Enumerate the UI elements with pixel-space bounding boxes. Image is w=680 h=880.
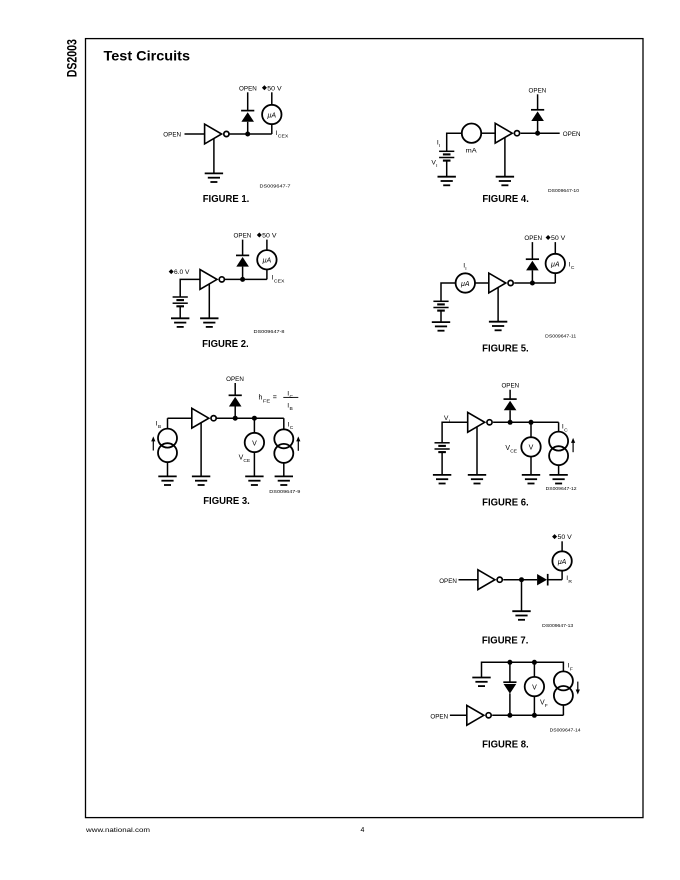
svg-text:DS009647-12: DS009647-12 [546, 486, 577, 492]
svg-text:mA: mA [466, 147, 478, 154]
svg-text:μA: μA [262, 258, 272, 265]
svg-text:FIGURE 2.: FIGURE 2. [202, 339, 249, 350]
svg-text:4: 4 [361, 827, 365, 834]
svg-text:DS009647-14: DS009647-14 [550, 728, 581, 734]
svg-text:C: C [571, 265, 575, 271]
svg-text:C: C [290, 394, 294, 400]
svg-text:h: h [259, 395, 263, 402]
svg-text:DS009647-10: DS009647-10 [548, 188, 579, 194]
svg-text:Test Circuits: Test Circuits [104, 48, 191, 64]
svg-text:CE: CE [510, 449, 518, 455]
svg-text:OPEN: OPEN [439, 578, 457, 585]
svg-text:DS009647-11: DS009647-11 [545, 334, 576, 340]
svg-text:50 V: 50 V [267, 85, 282, 92]
svg-text:50 V: 50 V [558, 534, 573, 541]
svg-text:FIGURE 7.: FIGURE 7. [482, 635, 529, 646]
svg-text:OPEN: OPEN [501, 383, 519, 390]
svg-text:μA: μA [267, 112, 277, 119]
svg-text:CEX: CEX [274, 278, 285, 284]
svg-text:V: V [529, 445, 534, 452]
svg-text:μA: μA [550, 261, 560, 268]
svg-text:FIGURE 1.: FIGURE 1. [203, 194, 250, 205]
svg-text:C: C [564, 427, 568, 433]
svg-text:FIGURE 8.: FIGURE 8. [482, 740, 529, 751]
svg-text:OPEN: OPEN [524, 235, 542, 242]
svg-text:50 V: 50 V [262, 233, 277, 240]
svg-text:CEX: CEX [278, 134, 289, 140]
svg-text:OPEN: OPEN [226, 376, 244, 383]
svg-text:CE: CE [243, 458, 251, 464]
svg-text:B: B [158, 424, 161, 430]
svg-text:OPEN: OPEN [563, 131, 581, 138]
svg-text:F: F [570, 666, 573, 672]
svg-text:DS009647-8: DS009647-8 [254, 329, 285, 335]
svg-text:F: F [545, 703, 548, 709]
svg-text:DS009647-13: DS009647-13 [542, 623, 573, 629]
svg-text:FE: FE [263, 398, 271, 404]
svg-text:FIGURE 3.: FIGURE 3. [203, 496, 250, 507]
svg-text:OPEN: OPEN [239, 85, 257, 92]
svg-text:μA: μA [460, 281, 470, 288]
svg-text:OPEN: OPEN [430, 714, 448, 721]
svg-text:DS009647-9: DS009647-9 [269, 489, 300, 495]
svg-text:50 V: 50 V [551, 235, 566, 242]
svg-text:6.0 V: 6.0 V [174, 269, 190, 276]
svg-text:I: I [465, 266, 466, 272]
svg-text:I: I [436, 163, 437, 169]
svg-text:B: B [290, 406, 293, 412]
svg-text:R: R [568, 579, 572, 585]
svg-text:V: V [532, 684, 537, 691]
svg-text:V: V [252, 440, 257, 447]
svg-text:C: C [290, 425, 294, 431]
svg-text:FIGURE 4.: FIGURE 4. [482, 194, 529, 205]
svg-text:OPEN: OPEN [163, 131, 181, 138]
svg-text:DS009647-7: DS009647-7 [260, 184, 291, 190]
svg-text:OPEN: OPEN [234, 233, 252, 240]
svg-text:I: I [439, 143, 440, 149]
svg-text:FIGURE 6.: FIGURE 6. [482, 497, 529, 508]
svg-text:μA: μA [557, 559, 567, 566]
svg-text:=: = [273, 395, 277, 402]
svg-text:www.national.com: www.national.com [85, 827, 151, 834]
svg-text:FIGURE 5.: FIGURE 5. [482, 343, 529, 354]
svg-text:OPEN: OPEN [529, 87, 547, 94]
svg-text:DS2003: DS2003 [65, 39, 80, 78]
